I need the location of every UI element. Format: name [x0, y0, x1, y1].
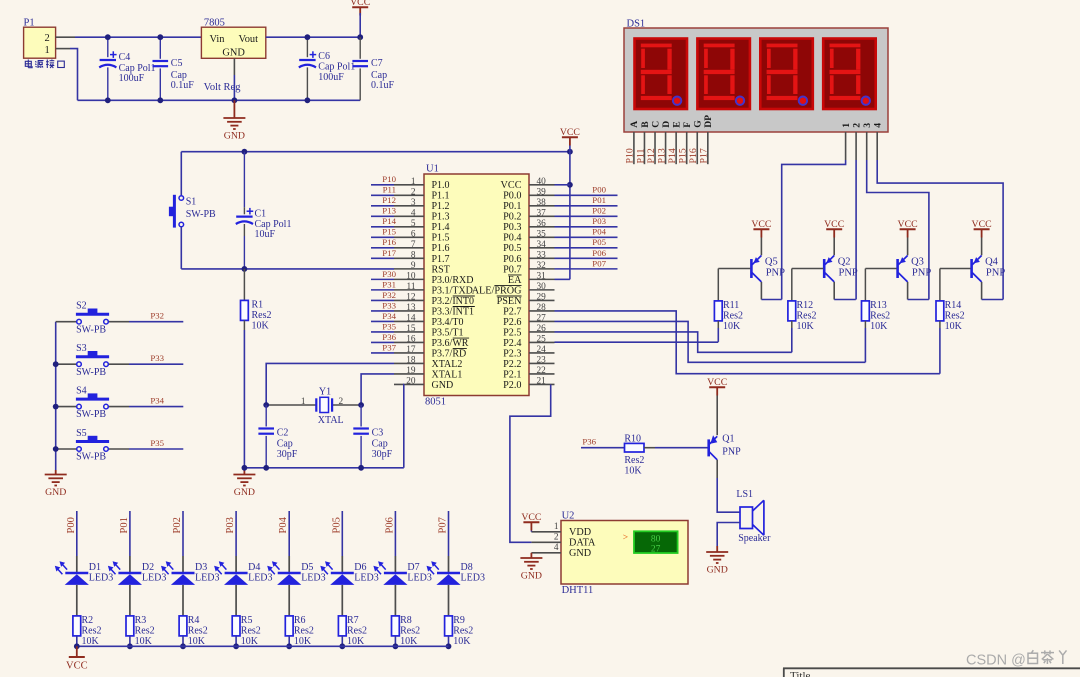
svg-text:GND: GND [707, 565, 728, 576]
svg-text:Res2: Res2 [347, 625, 367, 636]
LED D5 [278, 572, 301, 575]
speaker LS1 [740, 500, 764, 535]
svg-text:11: 11 [407, 282, 416, 292]
svg-text:Res2: Res2 [400, 625, 420, 636]
svg-text:Res2: Res2 [797, 310, 817, 321]
svg-text:16: 16 [406, 334, 416, 344]
svg-text:3: 3 [411, 198, 416, 208]
wire net P32 [129, 321, 183, 323]
wire emitter Q4 [981, 238, 983, 256]
transistor Q4 PNP [972, 256, 982, 282]
pin 40 U1 [529, 184, 555, 186]
voltage regulator 7805 [201, 27, 265, 58]
svg-text:P01: P01 [119, 517, 130, 533]
svg-text:R7: R7 [347, 615, 359, 626]
wire C1 bottom [243, 236, 245, 269]
svg-text:P03: P03 [592, 216, 606, 226]
wire bottom ground rail [78, 99, 361, 101]
wire C7 top [359, 37, 361, 59]
wire net P13 [371, 215, 394, 217]
svg-text:P14: P14 [382, 216, 396, 226]
svg-text:30pF: 30pF [372, 449, 393, 460]
pin stub 7805 GND [233, 58, 235, 75]
crystal Y1 XTAL [320, 397, 329, 412]
svg-text:PSEN: PSEN [497, 296, 523, 307]
wire emitter Q5 [760, 238, 762, 256]
pin 13 U1 [394, 310, 424, 312]
wire emitter Q2 [833, 238, 835, 256]
svg-text:C5: C5 [171, 58, 183, 69]
svg-text:28: 28 [537, 303, 547, 313]
wire net P31 [371, 289, 394, 291]
svg-text:S1: S1 [186, 197, 197, 208]
stem [530, 553, 532, 558]
junction [357, 34, 363, 40]
pin 23 U1 [529, 362, 555, 364]
svg-text:P1.4: P1.4 [432, 222, 450, 233]
wire DS1 pin C [654, 132, 656, 164]
svg-text:25: 25 [537, 334, 547, 344]
wire net P35 [371, 331, 394, 333]
pin 29 U1 [529, 299, 555, 301]
svg-text:22: 22 [537, 366, 547, 376]
svg-text:R5: R5 [241, 615, 253, 626]
pin 36 U1 [529, 226, 555, 228]
wire emitter Q3 [907, 238, 909, 256]
wire net P33 [129, 363, 183, 365]
wire net P10 [371, 184, 394, 186]
svg-text:10K: 10K [188, 636, 206, 647]
svg-text:Cap: Cap [277, 438, 293, 449]
green LCD readout in U2 [634, 531, 678, 553]
svg-text:R12: R12 [797, 300, 814, 311]
svg-text:34: 34 [537, 240, 547, 250]
pin stub DS1 3 [866, 132, 868, 160]
svg-text:P2.1: P2.1 [503, 369, 521, 380]
svg-text:D3: D3 [195, 562, 207, 573]
pin 19 U1 [394, 373, 424, 375]
wire net P34 [129, 406, 183, 408]
svg-text:PNP: PNP [912, 267, 931, 278]
svg-text:GND: GND [45, 487, 66, 498]
wire C4 top [107, 37, 109, 57]
svg-text:S3: S3 [76, 343, 87, 354]
svg-text:Q3: Q3 [911, 257, 924, 268]
pin 16 U1 [394, 341, 424, 343]
pin 8 U1 [394, 257, 424, 259]
svg-text:100uF: 100uF [119, 73, 145, 84]
wire Vout rail [266, 36, 360, 38]
wire net P2.6 to R13 [555, 321, 866, 362]
svg-text:4: 4 [873, 123, 884, 128]
resistor R2 [73, 616, 81, 636]
wire LED to R3 [129, 585, 131, 616]
capacitor C1 [236, 217, 253, 224]
wire net P03 LED column [235, 511, 237, 556]
pin stub R1 bottom [243, 320, 245, 330]
svg-text:CSDN @: CSDN @ [966, 653, 1026, 669]
pin 15 U1 [394, 331, 424, 333]
pin stub C1 [243, 207, 245, 214]
pin 32 U1 [529, 268, 555, 270]
svg-text:Res2: Res2 [135, 625, 155, 636]
svg-text:LED3: LED3 [301, 573, 325, 584]
wire speaker to ground [717, 523, 740, 547]
svg-text:D8: D8 [461, 562, 473, 573]
resistor R9 [445, 616, 453, 636]
junction [242, 465, 248, 471]
svg-text:1: 1 [554, 522, 559, 532]
svg-text:GND: GND [432, 380, 454, 391]
svg-text:P3.6/WR: P3.6/WR [432, 338, 469, 349]
wire R6 to rail [288, 636, 290, 646]
wire net P32 [371, 299, 394, 301]
junction [393, 643, 399, 649]
svg-text:C2: C2 [277, 428, 289, 439]
wire 7805 GND [233, 75, 235, 100]
svg-text:P02: P02 [172, 517, 183, 533]
svg-text:P04: P04 [592, 227, 606, 237]
svg-text:R10: R10 [624, 433, 641, 444]
wire crystal left [266, 404, 316, 406]
svg-text:P34: P34 [150, 396, 164, 406]
wire C6 top [306, 37, 308, 57]
resistor R1 [241, 300, 249, 320]
svg-text:2: 2 [339, 397, 344, 407]
svg-text:R13: R13 [870, 300, 887, 311]
svg-text:10K: 10K [135, 636, 153, 647]
svg-text:12: 12 [406, 292, 416, 302]
svg-text:DP: DP [703, 115, 714, 128]
wire net P2.5 to R12 [555, 332, 792, 352]
digit 3 of DS1 [760, 39, 813, 110]
wire P2.0 to U2 DATA [510, 385, 551, 543]
junction [157, 97, 163, 103]
svg-text:27: 27 [651, 545, 661, 555]
svg-text:3: 3 [862, 123, 873, 128]
wire Q1 collector to speaker [717, 478, 740, 512]
svg-text:P05: P05 [592, 237, 606, 247]
svg-text:P2.3: P2.3 [503, 348, 521, 359]
svg-text:2: 2 [554, 532, 559, 542]
svg-text:P30: P30 [382, 269, 396, 279]
svg-text:P01: P01 [592, 195, 606, 205]
svg-text:19: 19 [406, 366, 416, 376]
wire P1.1 to ground rail [70, 49, 78, 101]
junction [305, 34, 311, 40]
wire net P06 LED column [394, 511, 396, 556]
svg-text:P34: P34 [382, 311, 396, 321]
svg-text:C3: C3 [372, 428, 384, 439]
wire U1 GND down [403, 384, 405, 467]
svg-text:5: 5 [411, 219, 416, 229]
svg-text:P0.3: P0.3 [503, 222, 521, 233]
svg-text:U2: U2 [562, 511, 575, 522]
svg-text:8051: 8051 [425, 397, 446, 408]
junction [358, 402, 364, 408]
wire R3 to rail [129, 636, 131, 646]
svg-text:2: 2 [852, 123, 863, 128]
pin 24 U1 [529, 352, 555, 354]
wire net P04 [555, 236, 618, 238]
pin 39 U1 [529, 194, 555, 196]
svg-text:P12: P12 [646, 148, 657, 163]
svg-text:GND: GND [224, 131, 245, 142]
junction [263, 402, 269, 408]
wire R13 to P2 bus [864, 328, 866, 362]
wire C3 top [360, 405, 362, 427]
svg-text:P13: P13 [382, 206, 396, 216]
sensor U2 DHT11 [561, 521, 688, 585]
wire VCC rail [181, 151, 570, 153]
digit 2 of DS1 [697, 39, 750, 110]
svg-text:SW-PB: SW-PB [186, 209, 216, 220]
wire LED common rail [77, 645, 449, 647]
svg-text:S2: S2 [76, 301, 87, 312]
resistor R3 [126, 616, 134, 636]
svg-text:P04: P04 [278, 516, 289, 533]
svg-text:8: 8 [411, 250, 416, 260]
ground under speaker [706, 552, 728, 563]
svg-text:10K: 10K [400, 636, 418, 647]
wire net P17 [371, 257, 394, 259]
wire collector Q2 to DS1 [834, 299, 856, 301]
svg-text:E: E [671, 121, 682, 127]
pin 3 U1 [394, 205, 424, 207]
svg-text:C1: C1 [255, 209, 267, 220]
svg-text:13: 13 [406, 303, 416, 313]
svg-text:P2.7: P2.7 [503, 306, 521, 317]
svg-text:P0.2: P0.2 [503, 212, 521, 223]
wire LED to R4 [182, 585, 184, 616]
resistor R6 [285, 616, 293, 636]
svg-text:9: 9 [411, 261, 416, 271]
svg-text:10K: 10K [453, 636, 471, 647]
svg-text:18: 18 [406, 355, 416, 365]
wire crystal right [332, 404, 361, 406]
svg-text:P1.5: P1.5 [432, 233, 450, 244]
wire net P01 [555, 205, 618, 207]
wire C6 bottom [306, 67, 308, 100]
junction [232, 97, 238, 103]
svg-text:30pF: 30pF [277, 449, 298, 460]
svg-text:P02: P02 [592, 206, 606, 216]
svg-text:80: 80 [651, 535, 661, 545]
svg-text:31: 31 [537, 271, 547, 281]
pin 2 U1 [394, 194, 424, 196]
wire top rail Vin [75, 36, 201, 38]
svg-text:R11: R11 [723, 300, 739, 311]
svg-text:P32: P32 [382, 290, 396, 300]
wire R8 to rail [394, 636, 396, 646]
svg-text:P3.5/T1: P3.5/T1 [432, 327, 464, 338]
svg-text:U1: U1 [426, 164, 439, 175]
pin 1 U1 [394, 184, 424, 186]
wire net P00 [555, 194, 618, 196]
svg-text:C4: C4 [119, 52, 131, 63]
junction [233, 643, 239, 649]
svg-text:F: F [682, 122, 693, 128]
svg-text:Res2: Res2 [945, 310, 965, 321]
svg-text:15: 15 [406, 324, 416, 334]
svg-text:1: 1 [411, 177, 416, 187]
svg-text:P15: P15 [678, 148, 689, 163]
pin 26 U1 [529, 331, 555, 333]
resistor R11 [714, 301, 722, 321]
wire R2 to rail [76, 636, 78, 646]
title block [783, 667, 1080, 669]
svg-text:C: C [650, 121, 661, 128]
transistor Q2 PNP [824, 256, 834, 282]
junction [358, 465, 364, 471]
svg-text:24: 24 [537, 345, 547, 355]
svg-text:LED3: LED3 [407, 573, 431, 584]
junction C1 [242, 149, 248, 155]
resistor R12 [788, 301, 796, 321]
svg-text:G: G [693, 120, 704, 128]
switch S5 [56, 448, 77, 450]
svg-text:EA: EA [508, 275, 522, 286]
svg-text:GND: GND [569, 548, 591, 559]
junction [339, 643, 345, 649]
svg-text:10: 10 [406, 271, 416, 281]
svg-text:R4: R4 [188, 615, 200, 626]
svg-text:LED3: LED3 [195, 573, 219, 584]
svg-text:20: 20 [406, 376, 416, 386]
LED D3 [172, 572, 195, 575]
wire collector Q2 [833, 282, 835, 300]
svg-text:1: 1 [45, 45, 50, 56]
svg-text:38: 38 [537, 198, 547, 208]
wire net P02 [555, 215, 618, 217]
svg-text:P2.0: P2.0 [503, 380, 521, 391]
svg-text:D5: D5 [301, 562, 313, 573]
ground under R1 [233, 475, 255, 486]
svg-text:P07: P07 [592, 258, 606, 268]
wire base Q2 [792, 268, 823, 270]
svg-text:P17: P17 [382, 248, 396, 258]
wire collector Q5 [760, 282, 762, 300]
svg-text:P16: P16 [382, 237, 396, 247]
svg-text:P00: P00 [592, 185, 606, 195]
LED D6 [331, 572, 354, 575]
svg-text:LED3: LED3 [354, 573, 378, 584]
pin 11 U1 [394, 289, 424, 291]
LED D7 [384, 572, 407, 575]
svg-text:4: 4 [411, 208, 416, 218]
wire collector Q5 to DS1 [761, 299, 781, 301]
svg-text:D4: D4 [248, 562, 260, 573]
transistor Q3 PNP [898, 256, 908, 282]
junction [53, 404, 59, 410]
svg-text:P14: P14 [667, 148, 678, 163]
pin 33 U1 [529, 257, 555, 259]
svg-text:SW-PB: SW-PB [76, 452, 106, 463]
svg-text:0.1uF: 0.1uF [371, 80, 395, 91]
LED D4 [225, 572, 248, 575]
capacitor C6 [299, 60, 316, 67]
svg-text:P2.5: P2.5 [503, 327, 521, 338]
ground under switches [45, 475, 67, 486]
pin stub R11 bottom [717, 321, 719, 328]
wire C2 bottom [265, 436, 267, 468]
junction [446, 643, 452, 649]
LED D1 [65, 572, 88, 575]
svg-text:10K: 10K [347, 636, 365, 647]
pin 31 U1 [529, 278, 555, 280]
svg-text:P1.6: P1.6 [432, 243, 450, 254]
pin 38 U1 [529, 205, 555, 207]
svg-text:S5: S5 [76, 428, 87, 439]
resistor R7 [338, 616, 346, 636]
wire to ground symbol [233, 100, 235, 118]
svg-text:P12: P12 [382, 195, 396, 205]
svg-text:Cap Pol1: Cap Pol1 [318, 62, 355, 73]
pin 5 U1 [394, 226, 424, 228]
pin stub R14 bottom [939, 321, 941, 328]
svg-text:10K: 10K [82, 636, 100, 647]
svg-text:P3.0/RXD: P3.0/RXD [432, 275, 474, 286]
wire switch ground rail [55, 322, 57, 470]
svg-text:C6: C6 [318, 51, 330, 62]
svg-text:P13: P13 [656, 148, 667, 163]
svg-text:P35: P35 [150, 438, 164, 448]
svg-text:Vin: Vin [210, 34, 226, 45]
display DS1 4-digit 7-segment [624, 28, 888, 132]
switch S2 [56, 321, 77, 323]
svg-text:36: 36 [537, 219, 547, 229]
wire DS1 pin G [696, 132, 698, 164]
svg-text:26: 26 [537, 324, 547, 334]
wire R11 top [717, 269, 719, 301]
svg-text:P2.4: P2.4 [503, 338, 521, 349]
svg-text:A: A [629, 121, 640, 128]
stem [716, 546, 718, 552]
wire VCC to pin40 and EA [569, 146, 571, 280]
wire DS1 pin A [633, 132, 635, 164]
svg-text:6: 6 [411, 229, 416, 239]
wire R12 to P2 bus [791, 328, 793, 352]
svg-text:Res2: Res2 [624, 455, 644, 466]
pin 27 U1 [529, 320, 555, 322]
wire collector Q4 to DS1 [982, 299, 1004, 301]
svg-text:P1.3: P1.3 [432, 212, 450, 223]
svg-text:P3.3/INT1: P3.3/INT1 [432, 306, 475, 317]
svg-text:27: 27 [537, 313, 547, 323]
wire DS1 pin3 to Q3 collector [867, 160, 929, 300]
svg-text:GND: GND [521, 571, 542, 582]
svg-text:P37: P37 [382, 342, 396, 352]
wire base Q3 [865, 268, 896, 270]
op IC U1 8051 [424, 174, 529, 396]
pin stub C1 bottom [243, 224, 245, 236]
svg-text:P06: P06 [592, 248, 606, 258]
svg-text:P33: P33 [150, 353, 164, 363]
svg-text:Speaker: Speaker [738, 533, 771, 544]
svg-text:30: 30 [537, 282, 547, 292]
svg-text:P36: P36 [582, 437, 596, 447]
svg-text:DATA: DATA [569, 538, 596, 549]
wire Q1 collector [716, 460, 718, 478]
svg-text:P15: P15 [382, 227, 396, 237]
svg-text:32: 32 [537, 261, 547, 271]
svg-text:4: 4 [554, 543, 559, 553]
LED D8 [437, 572, 460, 575]
digit 4 of DS1 [823, 39, 876, 110]
svg-text:P11: P11 [635, 149, 646, 164]
switch S3 [56, 363, 77, 365]
wire R10 to Q1 base [655, 447, 708, 449]
